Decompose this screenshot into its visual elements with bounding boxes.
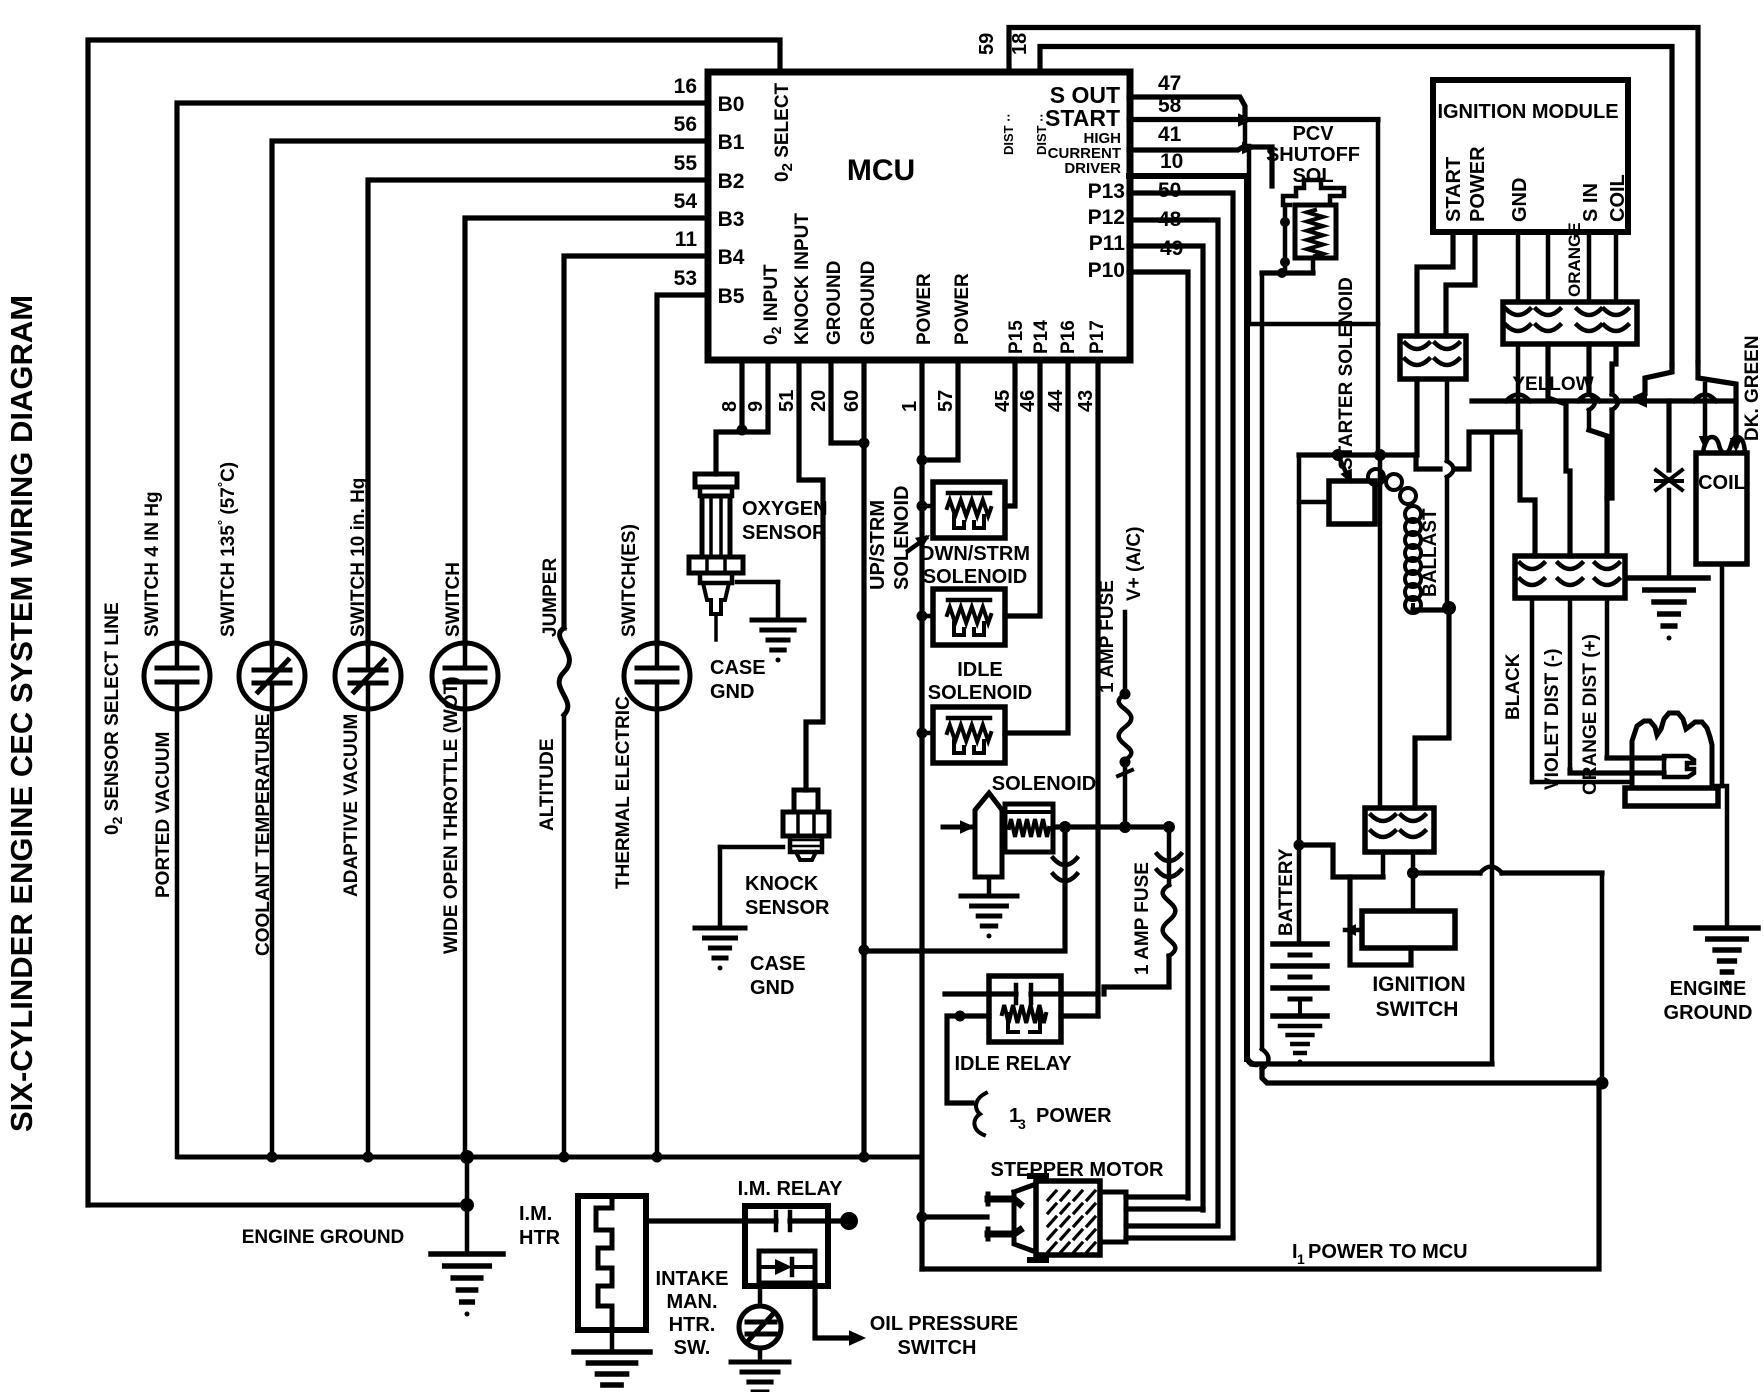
svg-text:9: 9 [745, 401, 767, 412]
svg-text:SENSOR: SENSOR [742, 522, 827, 544]
svg-text:GND: GND [1509, 178, 1531, 222]
svg-text:START: START [1443, 157, 1465, 222]
svg-text:1: 1 [1297, 1251, 1305, 1267]
svg-text:COIL: COIL [1607, 174, 1629, 222]
svg-text:YELLOW: YELLOW [1512, 374, 1593, 395]
svg-text:SWITCH 135° (57°C): SWITCH 135° (57°C) [215, 462, 239, 637]
svg-text:UP/STRM: UP/STRM [867, 500, 889, 590]
svg-text:V+ (A/C): V+ (A/C) [1124, 527, 1145, 601]
svg-text:KNOCK INPUT: KNOCK INPUT [792, 213, 813, 345]
svg-text:VIOLET DIST (-): VIOLET DIST (-) [1542, 649, 1563, 790]
svg-text:S IN: S IN [1580, 183, 1602, 222]
svg-text:INTAKE: INTAKE [656, 1268, 729, 1290]
svg-text:B5: B5 [718, 285, 745, 308]
svg-text:MAN.: MAN. [666, 1291, 717, 1313]
svg-text:SENSOR: SENSOR [745, 897, 830, 919]
svg-text:DIST ··: DIST ·· [1001, 113, 1016, 155]
svg-text:P11: P11 [1089, 232, 1126, 255]
svg-text:GND: GND [710, 681, 754, 703]
svg-text:PCV: PCV [1292, 123, 1334, 145]
svg-text:SW.: SW. [674, 1337, 711, 1359]
svg-text:B3: B3 [718, 208, 745, 231]
svg-text:DRIVER: DRIVER [1064, 160, 1121, 177]
svg-text:8: 8 [719, 401, 741, 412]
svg-text:B1: B1 [718, 131, 745, 154]
svg-text:THERMAL ELECTRIC: THERMAL ELECTRIC [613, 696, 634, 889]
svg-text:3: 3 [1018, 1116, 1026, 1132]
svg-text:P13: P13 [1088, 180, 1125, 203]
svg-text:ENGINE: ENGINE [1670, 978, 1747, 1000]
svg-text:P15: P15 [1006, 320, 1027, 354]
svg-text:SOLENOID: SOLENOID [891, 486, 913, 590]
svg-text:BALLAST: BALLAST [1420, 508, 1441, 597]
svg-text:WIDE OPEN THROTTLE (WOT): WIDE OPEN THROTTLE (WOT) [441, 676, 462, 954]
svg-text:STARTER SOLENOID: STARTER SOLENOID [1336, 277, 1357, 470]
svg-text:1 AMP FUSE: 1 AMP FUSE [1132, 862, 1153, 975]
svg-text:P10: P10 [1088, 259, 1125, 282]
svg-text:ALTITUDE: ALTITUDE [537, 738, 558, 831]
svg-text:20: 20 [808, 390, 830, 412]
svg-text:ADAPTIVE VACUUM: ADAPTIVE VACUUM [341, 714, 362, 897]
svg-text:GROUND: GROUND [824, 261, 845, 345]
svg-text:BLACK: BLACK [1503, 653, 1524, 720]
svg-text:ORANGE: ORANGE [1565, 222, 1584, 297]
svg-text:GROUND: GROUND [1664, 1002, 1753, 1024]
svg-text:56: 56 [674, 113, 697, 136]
svg-text:43: 43 [1075, 390, 1097, 412]
svg-text:OIL PRESSURE: OIL PRESSURE [870, 1313, 1019, 1335]
svg-text:57: 57 [935, 390, 957, 412]
svg-text:JUMPER: JUMPER [540, 558, 561, 637]
svg-text:SWITCH 4 IN Hg: SWITCH 4 IN Hg [142, 491, 163, 637]
svg-text:HTR.: HTR. [669, 1314, 716, 1336]
svg-text:I.M. RELAY: I.M. RELAY [738, 1178, 843, 1200]
svg-text:IDLE RELAY: IDLE RELAY [954, 1053, 1072, 1075]
svg-text:10: 10 [1160, 150, 1183, 173]
svg-text:COOLANT TEMPERATURE: COOLANT TEMPERATURE [253, 714, 274, 956]
svg-text:COIL: COIL [1698, 472, 1746, 494]
svg-text:11: 11 [675, 228, 698, 251]
svg-text:SOLENOID: SOLENOID [928, 682, 1032, 704]
svg-text:SWITCH: SWITCH [1376, 998, 1459, 1021]
svg-text:CASE: CASE [750, 953, 806, 975]
svg-text:B4: B4 [718, 246, 745, 269]
svg-text:ENGINE GROUND: ENGINE GROUND [242, 1227, 405, 1248]
svg-text:SOLENOID: SOLENOID [992, 773, 1096, 795]
svg-text:KNOCK: KNOCK [745, 873, 819, 895]
svg-text:SOLENOID: SOLENOID [923, 566, 1027, 588]
svg-text:IGNITION: IGNITION [1372, 973, 1465, 996]
svg-text:GROUND: GROUND [858, 261, 879, 345]
svg-text:P14: P14 [1031, 320, 1052, 354]
svg-text:POWER: POWER [1036, 1105, 1112, 1127]
svg-text:BATTERY: BATTERY [1276, 848, 1297, 936]
svg-text:I.M.: I.M. [519, 1203, 552, 1225]
svg-text:47: 47 [1158, 72, 1181, 95]
svg-text:16: 16 [674, 75, 697, 98]
svg-text:SWITCH 10 in. Hg: SWITCH 10 in. Hg [348, 478, 369, 637]
svg-text:SOL: SOL [1292, 165, 1333, 187]
svg-text:54: 54 [674, 190, 698, 213]
svg-text:B2: B2 [718, 170, 745, 193]
svg-text:SWITCH: SWITCH [898, 1337, 977, 1359]
svg-text:POWER TO MCU: POWER TO MCU [1308, 1241, 1468, 1263]
svg-text:POWER: POWER [952, 273, 973, 345]
svg-text:CASE: CASE [710, 657, 766, 679]
svg-text:55: 55 [674, 152, 698, 175]
svg-text:GND: GND [750, 977, 794, 999]
svg-text:DK. GREEN: DK. GREEN [1742, 335, 1763, 441]
svg-text:44: 44 [1045, 389, 1067, 412]
svg-text:SIX-CYLINDER ENGINE CEC SYSTEM: SIX-CYLINDER ENGINE CEC SYSTEM WIRING DI… [4, 295, 39, 1132]
svg-text:18: 18 [1009, 33, 1031, 55]
svg-text:45: 45 [992, 390, 1014, 412]
svg-text:SWITCH(ES): SWITCH(ES) [619, 524, 640, 637]
svg-text:HTR: HTR [519, 1227, 561, 1249]
svg-text:MCU: MCU [847, 154, 915, 187]
svg-text:53: 53 [674, 267, 697, 290]
svg-text:POWER: POWER [914, 273, 935, 345]
svg-text:POWER: POWER [1467, 146, 1489, 222]
svg-text:IDLE: IDLE [957, 659, 1003, 681]
svg-text:P17: P17 [1087, 320, 1108, 354]
svg-text:02 SENSOR SELECT LINE: 02 SENSOR SELECT LINE [102, 602, 125, 835]
svg-text:OXYGEN: OXYGEN [742, 498, 828, 520]
svg-text:SHUTOFF: SHUTOFF [1266, 144, 1360, 166]
svg-text:P12: P12 [1088, 206, 1125, 229]
svg-text:IGNITION MODULE: IGNITION MODULE [1437, 101, 1618, 123]
svg-text:SWITCH: SWITCH [443, 562, 464, 637]
svg-text:59: 59 [976, 33, 998, 55]
svg-text:1: 1 [899, 401, 921, 412]
svg-text:DWN/STRM: DWN/STRM [920, 543, 1030, 565]
svg-text:1 AMP FUSE: 1 AMP FUSE [1097, 580, 1118, 693]
svg-text:51: 51 [776, 390, 798, 412]
svg-text:41: 41 [1158, 123, 1182, 146]
svg-text:B0: B0 [718, 93, 745, 116]
svg-text:P16: P16 [1058, 320, 1079, 354]
svg-text:46: 46 [1017, 390, 1039, 412]
svg-text:60: 60 [841, 390, 863, 412]
svg-text:START: START [1045, 105, 1120, 131]
svg-text:STEPPER MOTOR: STEPPER MOTOR [991, 1159, 1165, 1181]
svg-text:PORTED VACUUM: PORTED VACUUM [153, 732, 174, 898]
